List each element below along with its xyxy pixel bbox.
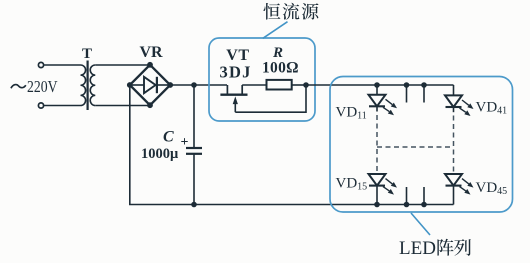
node VD11 anode — [374, 82, 380, 88]
label leader line to box — [263, 22, 288, 39]
wire gate feedback loop — [235, 85, 306, 112]
svg-text:+: + — [181, 135, 189, 150]
transistor VT drain lead — [226, 85, 228, 94]
terminal top — [38, 62, 43, 67]
svg-text:C: C — [163, 129, 174, 146]
svg-text:3DJ: 3DJ — [220, 63, 252, 82]
bridge rectifier VR inner diode — [131, 77, 169, 93]
LED VD45 — [445, 174, 462, 205]
wire source to resistor — [242, 84, 266, 86]
svg-text:VD41: VD41 — [476, 100, 508, 117]
node junction capacitor bottom — [191, 202, 197, 208]
LED VD41 light arrows — [460, 100, 474, 116]
dashed column VD41 — [453, 116, 455, 173]
node top stub 2 — [421, 82, 427, 102]
wire output to LED array — [306, 84, 454, 86]
LED VD11 — [369, 85, 386, 112]
bridge vertex junction dots — [127, 62, 173, 108]
LED VD41 — [445, 95, 462, 112]
transformer T secondary winding — [90, 65, 95, 106]
label 阵列 — [437, 239, 470, 256]
svg-text:1000μ: 1000μ — [141, 146, 179, 162]
wire primary bottom — [44, 105, 81, 107]
wire VD41 anode corner — [453, 85, 455, 95]
node bottom stub 1 — [404, 187, 410, 207]
transistor VT gate arrow — [233, 96, 238, 112]
dashed row middle — [377, 146, 454, 148]
dashed column VD11 — [376, 115, 378, 173]
wire DC positive from bridge right vertex — [170, 84, 227, 86]
svg-text:VD15: VD15 — [336, 176, 368, 193]
label leader line to LED box — [411, 213, 430, 235]
capacitor C plates — [186, 148, 202, 154]
wire secondary bottom to bridge bottom vertex — [95, 105, 150, 107]
wire primary top — [44, 64, 81, 66]
wire capacitor branch upper — [193, 85, 195, 148]
transformer T core — [86, 61, 88, 111]
LED array box — [330, 77, 513, 213]
node junction capacitor top — [191, 82, 197, 88]
transistor VT source lead — [241, 85, 243, 94]
node bottom stub 2 — [421, 187, 427, 207]
svg-text:LED: LED — [399, 238, 436, 259]
wire capacitor branch lower — [193, 154, 195, 205]
terminal bottom — [38, 103, 43, 108]
bridge rectifier VR diamond — [130, 65, 170, 105]
svg-text:R: R — [272, 45, 283, 61]
svg-text:100Ω: 100Ω — [262, 60, 299, 77]
node output junction — [303, 82, 309, 88]
AC source label ~220V — [11, 77, 58, 96]
LED VD15 — [369, 174, 386, 205]
resistor R body — [267, 80, 292, 90]
node top stub 1 — [404, 82, 410, 102]
transistor VT channel bar — [220, 93, 247, 95]
svg-text:VD45: VD45 — [476, 180, 508, 197]
wire DC negative from bridge left vertex down — [129, 85, 131, 205]
svg-text:220V: 220V — [27, 77, 58, 96]
wire secondary top to bridge top vertex — [95, 64, 150, 66]
svg-text:T: T — [82, 46, 92, 62]
node VD15 cathode — [374, 202, 380, 208]
transformer T primary winding — [81, 65, 86, 106]
svg-text:VR: VR — [140, 44, 164, 61]
svg-text:VD11: VD11 — [336, 105, 367, 122]
label 恒流源 — [263, 3, 318, 20]
LED VD15 light arrows — [383, 179, 397, 195]
constant current source box — [209, 38, 315, 121]
LED VD11 light arrows — [383, 99, 397, 115]
wire resistor to output node — [292, 84, 306, 86]
LED VD45 light arrows — [460, 179, 474, 195]
wire bottom rail — [129, 204, 454, 206]
